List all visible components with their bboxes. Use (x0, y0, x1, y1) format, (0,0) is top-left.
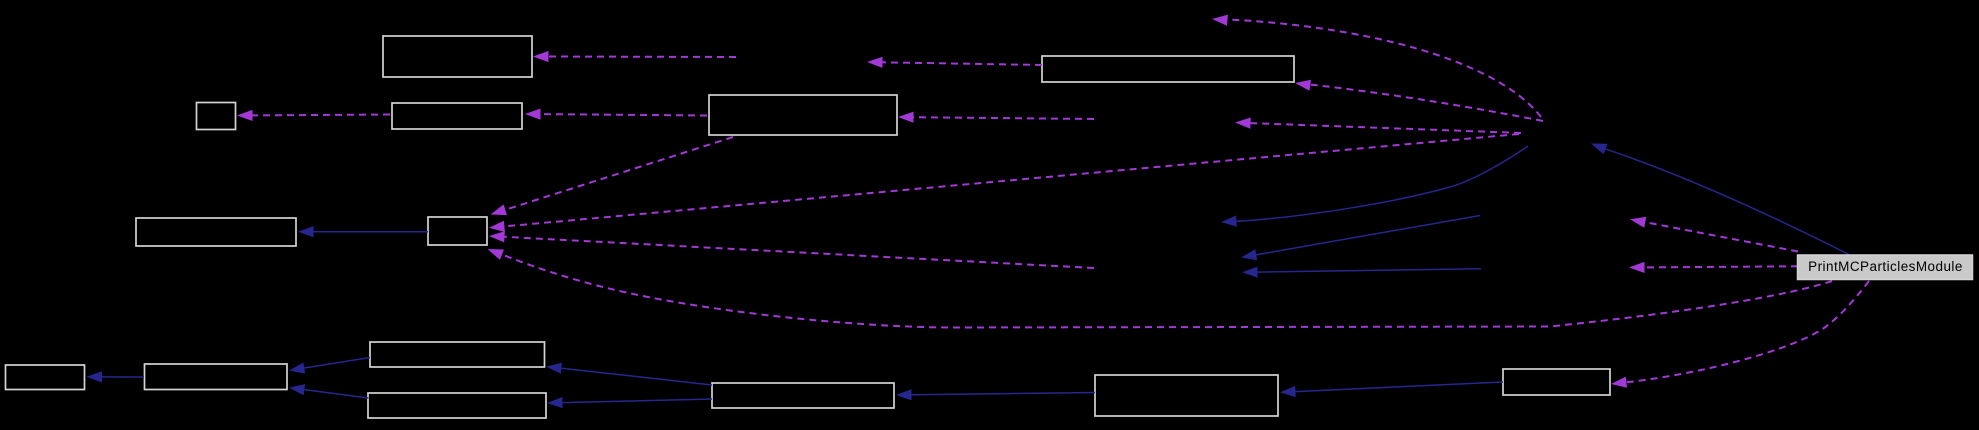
dashed edge D15 from PrintMCParticlesModule (1645, 266, 1799, 267)
solid edge S2 PrintMCParticlesModule to base (1602, 148, 1850, 255)
solid edge S7 B10 to B9 (304, 358, 370, 369)
solid edge S8 B11 to B9 (304, 390, 368, 398)
solid edge S6 B9 to B8 (102, 376, 144, 378)
dashed edge D5 (1251, 123, 1522, 133)
dashed edge D3 to B7 corner (1310, 85, 1543, 122)
dashed edge D2 from B7 (883, 62, 1043, 65)
solid edge S12 B14 to B13 (1296, 382, 1504, 392)
node box B12 (712, 383, 894, 408)
solid edge S5 (1258, 269, 1482, 272)
dashed edge D7 B4 to B3 (541, 114, 708, 115)
dashed edge D13 to B14 (1625, 281, 1869, 383)
solid edge S9 B12 to B10 (561, 368, 712, 385)
node box B1 (top) (383, 36, 532, 77)
dashed edge D10 long to B6 (504, 134, 1519, 226)
node box B14 (1503, 369, 1610, 395)
dashed edge D4 top arc (1228, 20, 1541, 118)
node PrintMCParticlesModule (current node) (1798, 255, 1973, 280)
node box B5 (row3 left) (136, 218, 296, 246)
dashed edge D8 B3 to B2 (253, 114, 391, 117)
solid edge S4 (1256, 216, 1480, 255)
node box B8 (bottom far left) (6, 365, 85, 390)
node box B7 (wide top right) (1042, 56, 1294, 82)
node box B9 (145, 364, 288, 390)
node box B6 (row3 small) (428, 217, 487, 245)
solid edge S10 B12 to B11 (563, 399, 713, 403)
dashed edge D1 to B1 (549, 56, 737, 59)
solid edge S3 arc (1234, 146, 1528, 222)
dashed edge D12 long bottom arc to B6 (497, 253, 1832, 328)
dashed edge D6 to B4 (914, 117, 1095, 119)
node box B10 (370, 342, 545, 367)
dashed edge D9 B4 to B6 (505, 137, 733, 210)
solid edge S11 B13 to B12 (912, 393, 1096, 395)
node box B2 (tiny left) (197, 103, 236, 130)
node box B11 (368, 393, 546, 418)
node box B13 (two-line) (1095, 375, 1278, 416)
node box B4 (center) (709, 95, 897, 135)
svg-text:PrintMCParticlesModule: PrintMCParticlesModule (1808, 259, 1963, 274)
node box B3 (392, 103, 522, 129)
dashed edge D11 to B6 (505, 237, 1095, 268)
solid edge S1 B6 to B5 (314, 231, 429, 233)
dashed edge D14 from PrintMCParticlesModule (1645, 222, 1798, 251)
